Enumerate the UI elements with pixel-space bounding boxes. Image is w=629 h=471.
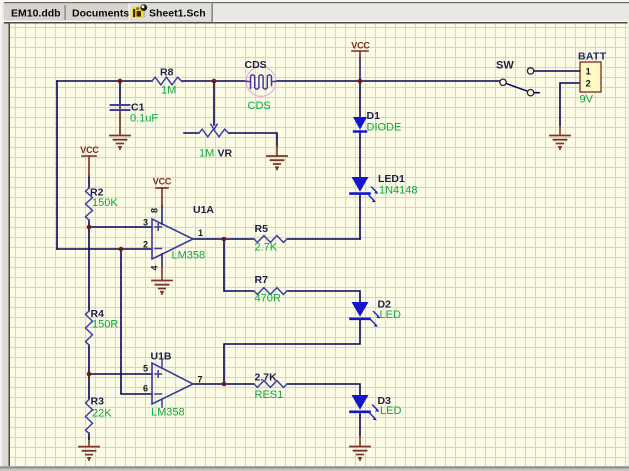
svg-text:VCC: VCC <box>351 41 370 51</box>
wire: vertical to U1B pin6 <box>121 249 152 394</box>
svg-text:5: 5 <box>143 364 148 374</box>
resistor R4 <box>86 311 93 345</box>
svg-text:VCC: VCC <box>80 145 99 155</box>
U1A pin8 VCC stub <box>161 188 163 206</box>
svg-text:2.7K: 2.7K <box>255 242 278 254</box>
right light strip <box>628 22 629 466</box>
svg-text:470R: 470R <box>255 293 281 305</box>
svg-text:2.7K: 2.7K <box>255 372 278 384</box>
svg-text:Sheet1.Sch: Sheet1.Sch <box>149 8 206 20</box>
ground under U1A pin4 <box>152 281 172 295</box>
wire: U1A output to R5 and down to R7 <box>193 239 360 302</box>
power VCC (top, above D1) <box>359 58 361 81</box>
op-amp U1B <box>143 351 203 419</box>
svg-text:D1: D1 <box>367 110 381 122</box>
svg-text:CDS: CDS <box>245 59 267 71</box>
svg-text:DIODE: DIODE <box>367 122 402 134</box>
bottom strip <box>0 466 629 471</box>
svg-text:8: 8 <box>150 208 160 213</box>
wire: D3 to ground <box>359 414 361 436</box>
active tab Sheet1.Sch <box>129 3 212 22</box>
potentiometer VR <box>199 129 229 137</box>
wire: D1/LED1 vertical chain <box>359 81 361 239</box>
svg-text:22K: 22K <box>92 408 112 420</box>
svg-text:2: 2 <box>586 79 591 90</box>
svg-text:6: 6 <box>143 384 148 394</box>
wire: U1B output to RES1 and D3 <box>193 384 360 395</box>
wire: SW lower contact stub <box>534 92 539 94</box>
diode D3 <box>351 395 402 420</box>
svg-text:LM358: LM358 <box>172 250 206 262</box>
svg-text:VCC: VCC <box>153 176 172 186</box>
svg-text:R8: R8 <box>160 67 174 79</box>
svg-text:Documents: Documents <box>72 8 129 20</box>
wire: VR wiper <box>213 81 215 125</box>
svg-text:0.1uF: 0.1uF <box>130 113 158 125</box>
svg-text:VR: VR <box>218 148 233 160</box>
sheet icon <box>132 4 147 18</box>
svg-text:150K: 150K <box>92 197 118 209</box>
switch SW <box>496 60 534 96</box>
svg-text:1M: 1M <box>161 85 176 97</box>
wire: VR connections <box>184 133 277 146</box>
svg-text:SW: SW <box>496 60 514 72</box>
ground under C1 <box>110 136 130 150</box>
svg-text:7: 7 <box>198 375 203 385</box>
wire: U1A pin2 net <box>57 248 152 250</box>
svg-text:LM358: LM358 <box>151 407 185 419</box>
viewport frame <box>0 22 10 471</box>
svg-text:1M: 1M <box>199 148 214 160</box>
svg-text:LED1: LED1 <box>378 173 405 185</box>
svg-text:LED: LED <box>380 405 401 417</box>
ground under BATT pin2 <box>550 136 570 150</box>
ground under VR <box>267 156 287 170</box>
battery BATT <box>570 51 607 106</box>
power VCC (left, above R2) <box>82 156 96 176</box>
resistor R3 <box>86 400 93 434</box>
svg-text:LED: LED <box>380 309 401 321</box>
svg-text:R3: R3 <box>91 396 105 408</box>
svg-text:U1B: U1B <box>151 351 172 363</box>
wire: U1A pin3 net <box>89 226 152 228</box>
U1A pin4 gnd stub <box>161 254 163 266</box>
svg-text:1: 1 <box>586 67 592 78</box>
svg-text:R7: R7 <box>255 274 269 286</box>
resistor R5 <box>254 236 287 243</box>
svg-text:CDS: CDS <box>248 100 271 112</box>
photoresistor CDS <box>245 59 276 112</box>
diode D1 <box>353 110 401 134</box>
ground under D3 <box>350 447 370 461</box>
diode LED1 <box>351 173 418 202</box>
svg-text:R5: R5 <box>255 223 269 235</box>
wire: main top net <box>57 81 500 249</box>
svg-text:EM10.ddb: EM10.ddb <box>11 8 61 20</box>
resistor R8 <box>152 77 182 85</box>
svg-text:1N4148: 1N4148 <box>379 185 418 197</box>
resistor R7 <box>254 288 287 295</box>
svg-text:1: 1 <box>198 228 203 238</box>
svg-text:150R: 150R <box>92 319 118 331</box>
svg-text:RES1: RES1 <box>255 389 284 401</box>
capacitor C1 <box>111 105 130 110</box>
svg-text:4: 4 <box>150 265 160 270</box>
tab bar background <box>0 0 629 22</box>
power VCC (above U1A) <box>156 187 168 189</box>
svg-text:BATT: BATT <box>578 51 607 63</box>
resistor R2 <box>86 188 93 220</box>
diode D2 <box>351 299 401 327</box>
resistor RES1 2.7K <box>254 381 287 388</box>
svg-text:3: 3 <box>143 218 148 228</box>
ground under R3 <box>79 447 99 460</box>
op-amp U1A <box>143 204 214 271</box>
svg-text:U1A: U1A <box>193 204 214 216</box>
wire: C1 connections <box>119 81 121 105</box>
wire: D2 bottom loop to U1B output node <box>224 320 360 384</box>
wire: SW to BATT pin1 <box>534 70 580 72</box>
svg-text:9V: 9V <box>580 94 594 106</box>
wire: R2-R4-R3 chain verticals <box>88 439 90 447</box>
wire: BATT pin2 to ground <box>560 83 580 126</box>
svg-text:2: 2 <box>143 240 148 250</box>
wire: U1B pin5 net <box>89 373 152 375</box>
